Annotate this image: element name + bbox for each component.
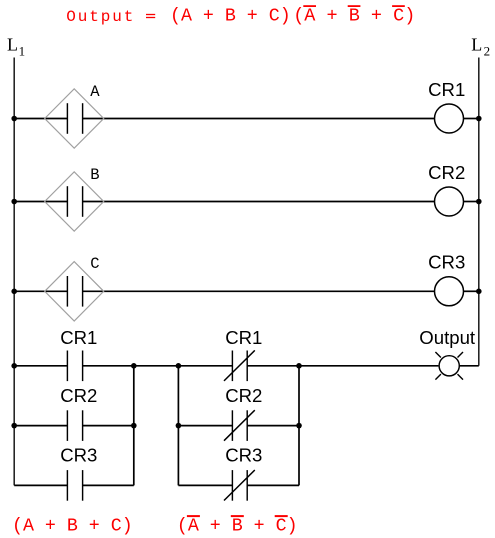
lamp Output [435,352,463,380]
junction L2-rung1 [476,116,482,122]
svg-text:Output: Output [66,8,135,26]
wire rung3 middle segment [83,290,435,292]
wire branch2 group2 right [247,425,299,427]
wire branch3 group2 left [178,484,232,486]
svg-text:CR1: CR1 [428,79,465,100]
contact CR2 normally open [67,410,82,441]
wire rung4 segment 1 [14,365,67,367]
label L2 [471,35,490,59]
label L1 [7,35,25,59]
wire branch3 group1 right [83,484,134,486]
svg-text:A: A [90,83,100,101]
relay coil CR2 [435,187,464,216]
wire rung4 segment 3 [247,365,438,367]
svg-text:CR3: CR3 [60,445,97,466]
relay coil CR3 [435,277,464,306]
rail L2 [478,58,480,366]
wire branch2 group2 left [178,425,232,427]
contact CR2 normally closed [224,410,255,441]
wire rung1 right segment [464,118,479,120]
contact B (normally open) [67,186,82,217]
junction L1-rung4 [11,363,17,369]
title expression: Output = (A + B + C)(A' + B' + C') [66,6,415,27]
junction L2-rung3 [476,289,482,295]
svg-text:CR3: CR3 [225,445,262,466]
relay coil CR1 [435,104,464,133]
wire rung1 left segment [14,118,67,120]
junction node B2 [176,423,182,429]
junction node C1 [296,363,302,369]
wire rung2 right segment [464,201,479,203]
junction L1-rung2 [11,199,17,205]
wire branch3 group1 left [14,484,67,486]
wire rung4 segment 4 [460,365,479,367]
wire rung1 middle segment [83,118,435,120]
contact CR3 normally closed [224,470,255,501]
contact CR1 normally closed [224,350,255,381]
junction L1-branch2 [11,423,17,429]
svg-text:CR1: CR1 [225,327,262,348]
wire vertical group1 right [133,366,135,486]
junction L1-rung1 [11,116,17,122]
contact CR1 normally open [67,351,82,382]
wire rung3 right segment [464,290,479,292]
svg-text:(A + B + C): (A + B + C) [293,6,415,27]
junction L1-rung3 [11,289,17,295]
svg-text:CR2: CR2 [428,162,465,183]
wire vertical group2 left [177,366,179,486]
sensor diamond B [45,172,104,231]
svg-text:C: C [90,255,99,273]
wire vertical group2 right [298,366,300,486]
wire rung2 middle segment [83,201,435,203]
junction node A1 [131,363,137,369]
svg-text:L: L [7,35,18,55]
wire rung2 left segment [14,201,67,203]
junction node A2 [131,423,137,429]
svg-text:CR3: CR3 [428,251,465,272]
contact C (normally open) [67,276,82,307]
sensor diamond C [45,262,104,321]
svg-text:CR1: CR1 [60,327,97,348]
svg-text:L: L [471,35,482,55]
junction node B1 [176,363,182,369]
svg-text:2: 2 [484,43,491,58]
junction L2-rung2 [476,199,482,205]
svg-text:CR2: CR2 [225,385,262,406]
wire branch2 group1 right [83,425,134,427]
junction node C2 [296,423,302,429]
wire branch2 group1 left [14,425,67,427]
red label (A' + B' + C') [177,516,298,536]
svg-text:Output: Output [419,327,476,348]
wire rung4 segment 2 [83,365,233,367]
svg-text:(A + B + C): (A + B + C) [177,517,298,537]
svg-text:(A + B + C): (A + B + C) [12,517,133,537]
wire rung3 left segment [14,290,67,292]
sensor diamond A [45,89,104,148]
contact CR3 normally open [67,470,82,501]
svg-text:CR2: CR2 [60,385,97,406]
svg-text:(A + B + C): (A + B + C) [170,7,291,27]
svg-text:1: 1 [19,43,26,58]
svg-text:B: B [90,166,99,184]
contact A (normally open) [67,103,82,134]
wire branch3 group2 right [247,484,299,486]
rail L1 [13,58,15,486]
